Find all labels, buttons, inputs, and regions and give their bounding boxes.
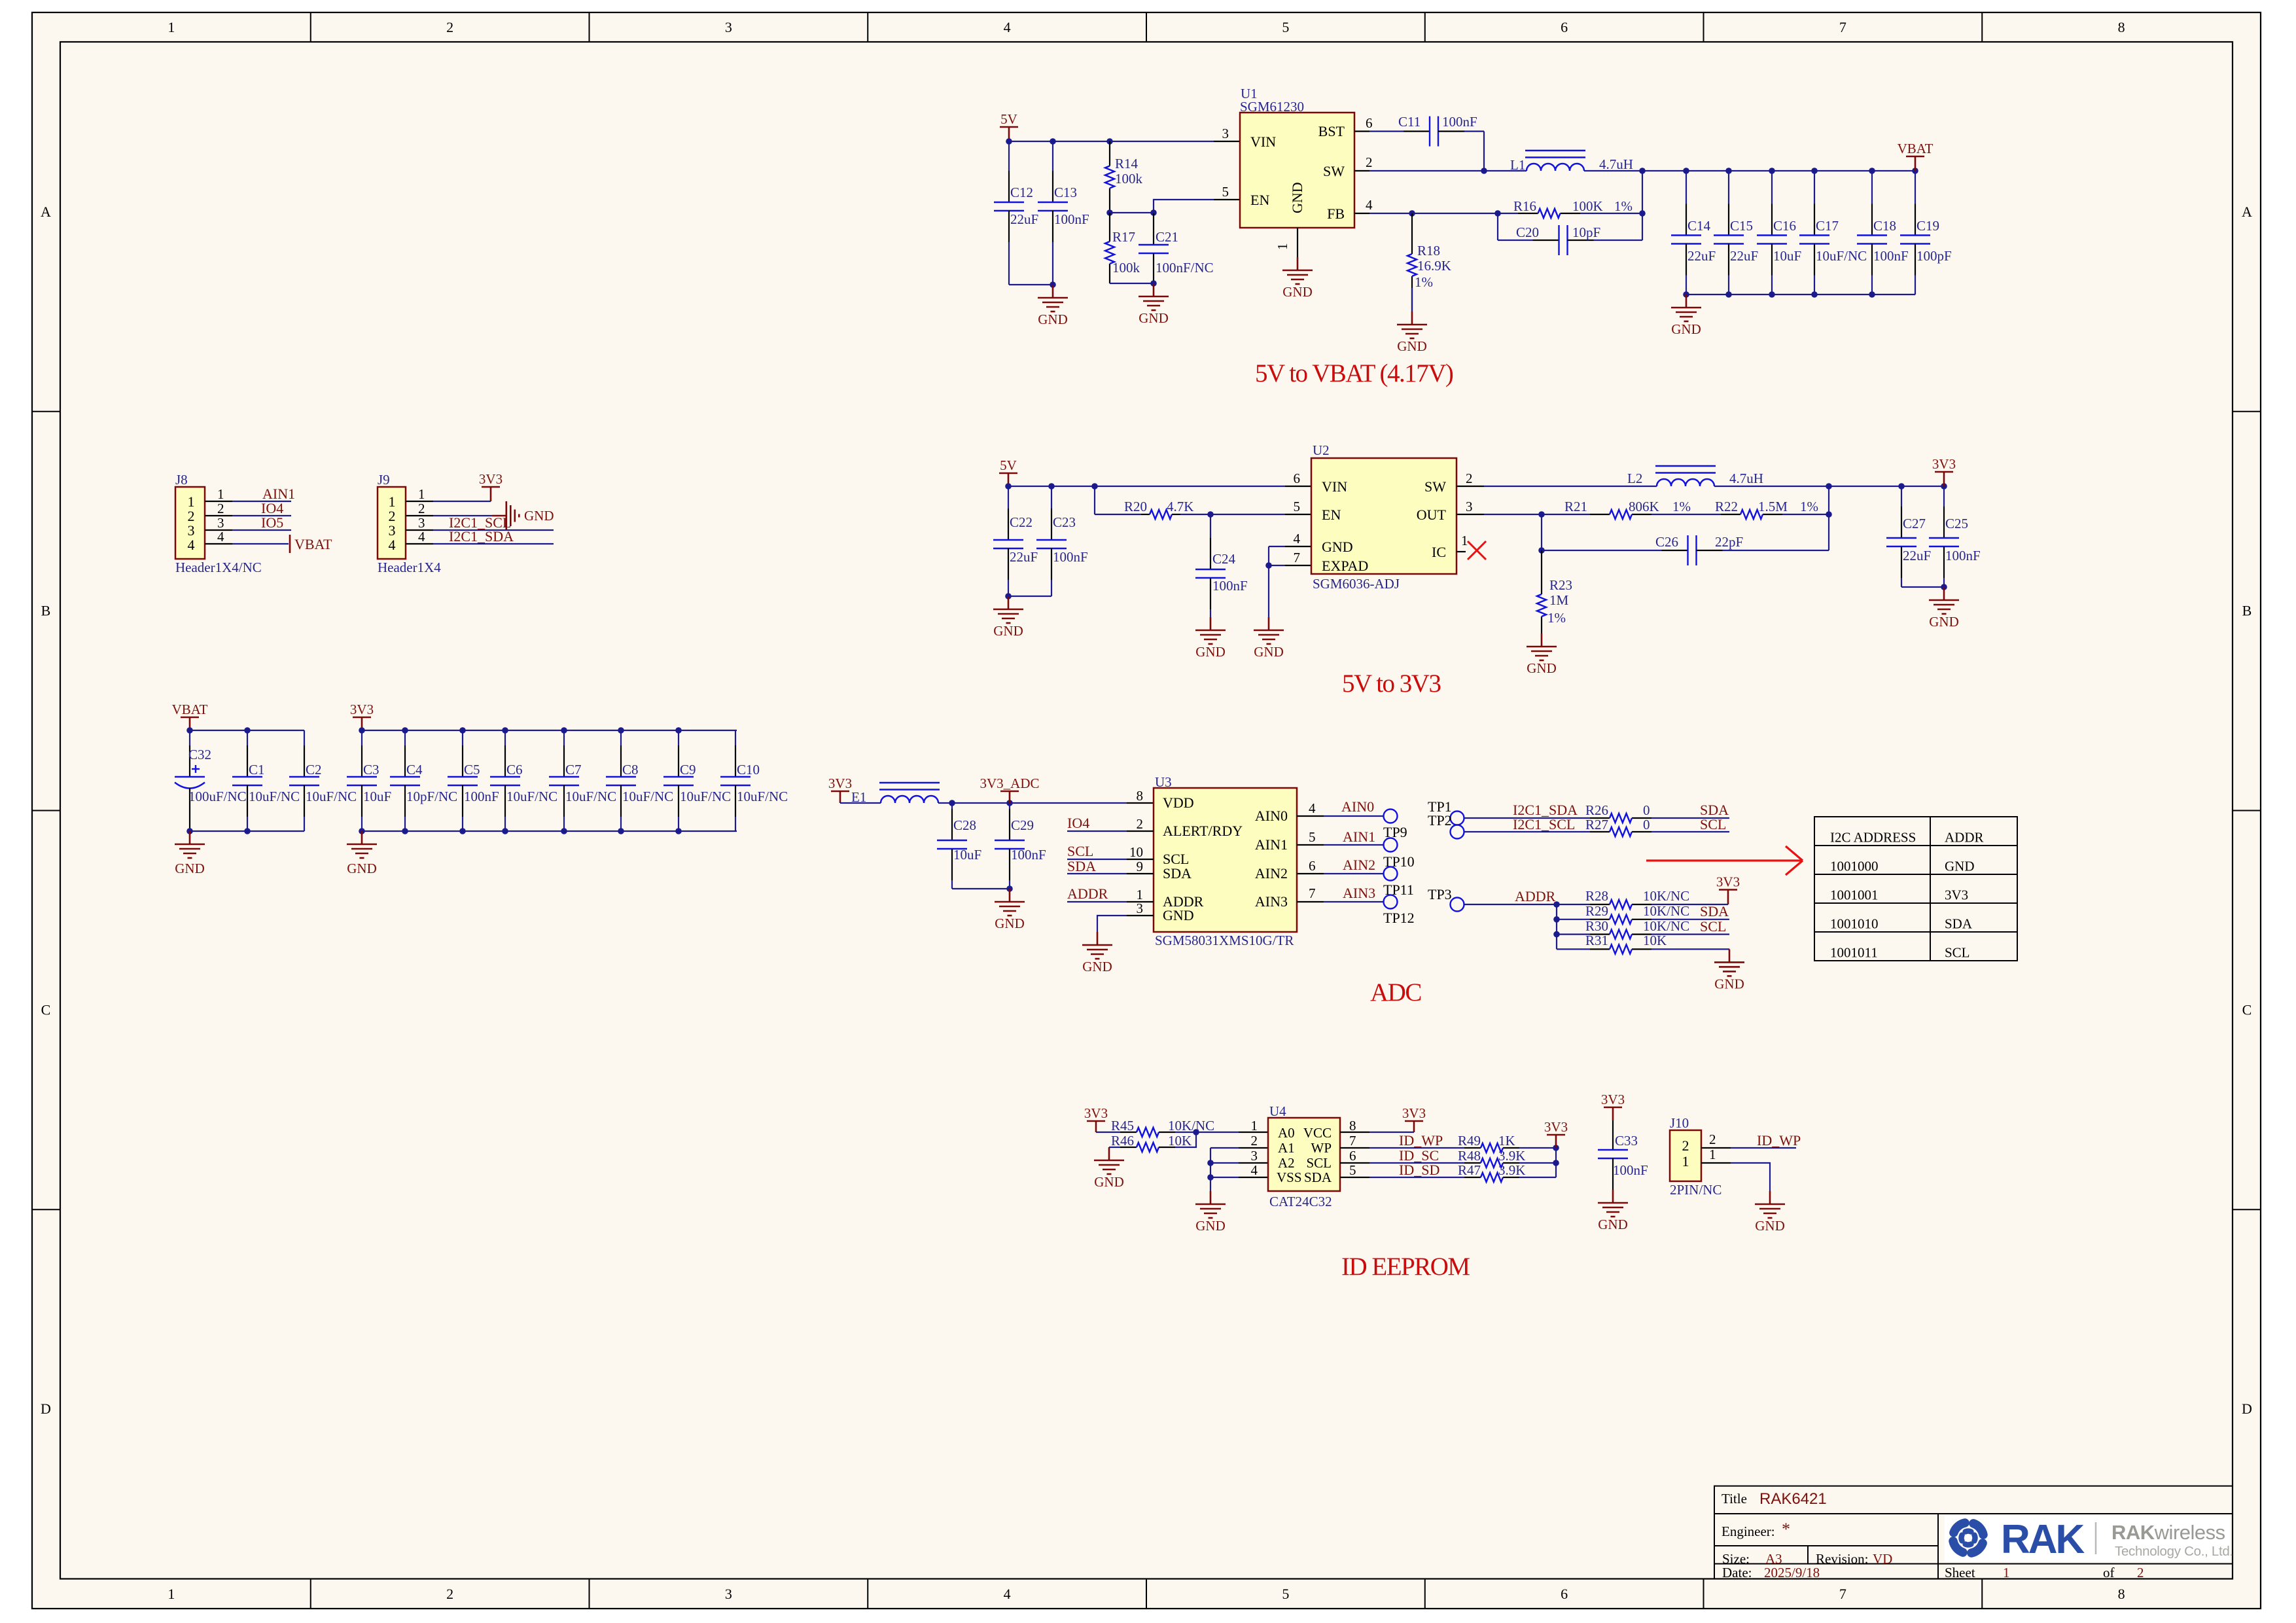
svg-text:A: A [2242, 204, 2252, 220]
svg-text:R20: R20 [1124, 499, 1147, 514]
svg-text:3V3: 3V3 [350, 702, 374, 717]
svg-text:5: 5 [1349, 1162, 1356, 1178]
net IO4 to U3.2 [1067, 830, 1127, 832]
J8 pin 4 wire to VBAT [205, 543, 232, 544]
svg-text:R28: R28 [1585, 888, 1608, 904]
pin U1.4 FB stub [1354, 213, 1369, 214]
ground under U4 VSS [1210, 1191, 1212, 1204]
capacitor C33 100nF [1612, 1120, 1614, 1150]
svg-text:C1: C1 [249, 762, 265, 777]
junction C29/3V3_ADC [1006, 800, 1013, 806]
svg-text:WP: WP [1311, 1140, 1332, 1156]
svg-text:1001011: 1001011 [1830, 945, 1878, 961]
power flag 3V3 at R45 [1095, 1121, 1097, 1132]
svg-text:U4: U4 [1269, 1103, 1286, 1119]
svg-text:IO5: IO5 [261, 514, 283, 531]
svg-text:C12: C12 [1010, 185, 1033, 200]
capacitor C19 [1915, 171, 1916, 204]
svg-text:SCL: SCL [1306, 1155, 1332, 1171]
svg-text:4: 4 [217, 529, 224, 544]
svg-text:3: 3 [1222, 126, 1229, 141]
svg-text:SDA: SDA [1945, 916, 1973, 932]
svg-text:4: 4 [188, 537, 195, 553]
capacitor C26 22pF [1542, 550, 1662, 551]
svg-text:100nF: 100nF [1442, 114, 1477, 130]
svg-text:EXPAD: EXPAD [1322, 558, 1368, 574]
svg-text:C25: C25 [1945, 516, 1968, 531]
svg-text:1: 1 [1682, 1153, 1689, 1169]
resistor R31 10K to GND [1557, 948, 1590, 950]
svg-text:C11: C11 [1398, 114, 1421, 130]
wire 5V rail to VIN [1009, 141, 1214, 142]
resistor R26 0 [1590, 817, 1610, 819]
svg-text:2: 2 [1137, 816, 1144, 832]
svg-text:7: 7 [1349, 1133, 1356, 1149]
svg-text:2: 2 [1466, 471, 1473, 486]
svg-text:GND: GND [1282, 284, 1313, 300]
svg-text:7: 7 [1309, 885, 1316, 901]
junction C13 bottom [1050, 281, 1056, 288]
wire cap bank bottom rail [1686, 294, 1915, 295]
svg-text:AIN3: AIN3 [1255, 893, 1288, 910]
wire C28-C29 bottom [952, 888, 1010, 889]
J8 pin 2 wire / net IO4 [205, 515, 232, 516]
svg-text:1: 1 [1461, 533, 1468, 548]
I2C address table [1814, 817, 2017, 961]
svg-text:4: 4 [1309, 800, 1316, 816]
pin U1.6 BST stub [1354, 131, 1369, 132]
svg-text:5V: 5V [1000, 111, 1017, 127]
junction C11/SW [1481, 168, 1487, 174]
U3 AIN1 wire to TP10 [1297, 844, 1324, 846]
capacitor C16 [1771, 171, 1773, 204]
pin U1.5 EN stub [1214, 199, 1240, 200]
svg-text:A: A [41, 204, 51, 220]
svg-text:GND: GND [993, 623, 1023, 639]
svg-text:1.5M: 1.5M [1758, 499, 1788, 514]
capacitor C24 [1210, 514, 1211, 538]
svg-text:100nF: 100nF [1011, 847, 1046, 863]
ADDR ladder vertical [1556, 904, 1557, 949]
svg-text:3.9K: 3.9K [1498, 1162, 1525, 1178]
svg-text:VSS: VSS [1277, 1169, 1302, 1185]
svg-text:C29: C29 [1011, 817, 1034, 833]
svg-text:10: 10 [1129, 844, 1143, 860]
row tick marks left/right [32, 411, 60, 412]
junction C24 top [1207, 511, 1214, 518]
ground under R23 [1541, 633, 1543, 647]
svg-text:6: 6 [1366, 115, 1373, 131]
svg-text:I2C1_SDA: I2C1_SDA [449, 528, 514, 544]
svg-text:2: 2 [418, 501, 425, 516]
wire 3V3 bank bottom rail [362, 830, 737, 832]
ground under R18 [1411, 312, 1413, 325]
capacitor C9 [678, 730, 679, 745]
svg-text:AIN1: AIN1 [1343, 829, 1375, 845]
junction 5V/C22 [1005, 483, 1012, 490]
svg-text:5: 5 [1282, 19, 1289, 35]
wire EN net [1154, 200, 1214, 213]
svg-text:100k: 100k [1112, 260, 1140, 276]
capacitor C10 [735, 730, 736, 745]
junction R20 tap [1091, 483, 1098, 490]
svg-text:10K: 10K [1643, 933, 1667, 948]
power flag VBAT cap bank [189, 717, 191, 730]
svg-text:ID_SD: ID_SD [1399, 1162, 1439, 1178]
svg-text:C28: C28 [953, 817, 976, 833]
svg-text:100uF/NC: 100uF/NC [188, 789, 247, 804]
junctions cap bank C14-C19 top [1683, 168, 1689, 174]
svg-text:C13: C13 [1054, 185, 1077, 200]
svg-text:TP3: TP3 [1428, 886, 1452, 902]
svg-text:100nF: 100nF [1053, 549, 1088, 565]
node junction 5V/C12 [1006, 138, 1012, 145]
svg-text:22uF: 22uF [1903, 548, 1931, 563]
svg-text:806K: 806K [1629, 499, 1659, 514]
pin U2.5 EN stub [1285, 514, 1311, 515]
svg-text:4: 4 [1004, 1586, 1011, 1602]
svg-text:4: 4 [389, 537, 396, 553]
ground under C32 [189, 831, 191, 844]
svg-text:SW: SW [1323, 163, 1345, 179]
wire R22 to rail tap [1782, 514, 1829, 515]
svg-text:VD: VD [1873, 1551, 1892, 1567]
red arrow to I2C address table [1646, 846, 1803, 875]
node junction C13 [1050, 138, 1056, 145]
svg-text:C3: C3 [363, 762, 380, 777]
ground under C12/C13 [1052, 285, 1054, 298]
svg-text:GND: GND [1139, 310, 1169, 326]
svg-text:3V3: 3V3 [1932, 456, 1956, 472]
wire VBAT rail [190, 730, 304, 731]
svg-text:10uF/NC: 10uF/NC [565, 789, 616, 804]
capacitor C18 [1871, 171, 1873, 204]
wire EXPAD/GND pins [1269, 546, 1285, 547]
junction EXPAD [1265, 562, 1272, 569]
svg-text:100k: 100k [1115, 171, 1143, 187]
wire L2 to 3V3 rail [1714, 486, 1944, 487]
svg-text:2: 2 [446, 1586, 453, 1602]
svg-text:4: 4 [1251, 1162, 1258, 1178]
svg-text:Revision:: Revision: [1816, 1551, 1869, 1567]
regulator U2 SGM6036-ADJ [1311, 458, 1457, 574]
svg-text:*: * [1782, 1520, 1790, 1539]
svg-text:C9: C9 [680, 762, 696, 777]
svg-text:TP2: TP2 [1428, 812, 1452, 829]
capacitor C4 [404, 730, 406, 745]
junction R14/R17 [1106, 209, 1113, 216]
power flag VBAT at J8 [289, 535, 291, 553]
svg-text:R21: R21 [1564, 499, 1587, 514]
svg-text:ID_WP: ID_WP [1757, 1132, 1801, 1149]
svg-text:B: B [41, 603, 51, 619]
svg-text:VBAT: VBAT [294, 536, 332, 552]
svg-text:100nF: 100nF [1054, 211, 1089, 227]
svg-text:C33: C33 [1615, 1133, 1638, 1149]
pin U2.1 IC no-connect [1457, 551, 1466, 552]
no-connect X on U2.1 [1468, 541, 1486, 560]
svg-text:R31: R31 [1585, 933, 1608, 948]
ground under C24 [1210, 617, 1212, 630]
wire R26 to SDA [1651, 817, 1729, 819]
svg-text:3V3: 3V3 [1945, 887, 1968, 903]
pin U4.6 SCL / net ID_SC with R48 3.9K [1340, 1162, 1369, 1164]
resistor R21 806K [1590, 514, 1610, 515]
junction R23 tap [1538, 511, 1545, 518]
svg-text:B: B [2242, 603, 2252, 619]
svg-text:AIN0: AIN0 [1341, 798, 1374, 815]
wire 3V3 to R45 [1096, 1132, 1120, 1133]
resistor R29 10K/NC to SDA [1557, 919, 1590, 920]
svg-text:D: D [2242, 1400, 2252, 1417]
resistor R20 4.7K [1095, 514, 1141, 515]
svg-text:SGM61230: SGM61230 [1240, 99, 1304, 115]
svg-text:1%: 1% [1415, 274, 1433, 290]
ground under U3 [1097, 932, 1099, 945]
svg-text:SCL: SCL [1700, 816, 1726, 832]
svg-text:5V to VBAT (4.17V): 5V to VBAT (4.17V) [1255, 359, 1453, 387]
power flag 3V3 at U4 VCC [1413, 1121, 1415, 1132]
wire C26 feedback vertical right [1828, 514, 1829, 550]
svg-text:6: 6 [1561, 1586, 1568, 1602]
svg-text:3.9K: 3.9K [1498, 1148, 1525, 1164]
svg-text:Header1X4: Header1X4 [378, 560, 441, 575]
svg-text:5: 5 [1294, 499, 1301, 514]
svg-text:1: 1 [1275, 243, 1290, 251]
svg-text:I2C ADDRESS: I2C ADDRESS [1830, 830, 1916, 846]
wire rail to R20 [1094, 486, 1095, 514]
ground under R46 [1108, 1147, 1110, 1160]
net I2C1_SDA wire with R26 [1464, 817, 1590, 819]
svg-text:U2: U2 [1313, 442, 1330, 458]
power flag 3V3_ADC [1009, 791, 1011, 803]
svg-text:GND: GND [1714, 976, 1744, 991]
svg-text:5V to 3V3: 5V to 3V3 [1342, 669, 1440, 698]
svg-text:1001000: 1001000 [1830, 859, 1879, 874]
svg-text:CAT24C32: CAT24C32 [1269, 1194, 1332, 1209]
svg-text:22uF: 22uF [1687, 248, 1716, 264]
svg-text:4.7uH: 4.7uH [1599, 156, 1633, 172]
svg-text:0: 0 [1643, 817, 1650, 832]
resistor R14 [1109, 141, 1110, 166]
capacitor C23 [1051, 486, 1052, 508]
pin U2.3 OUT stub [1457, 514, 1484, 515]
connector J10 2PIN/NC [1670, 1130, 1701, 1181]
resistor R23 1M [1541, 550, 1542, 594]
wire R18 to ground [1411, 288, 1413, 312]
svg-text:1: 1 [418, 486, 425, 502]
junction EN/C21 [1150, 209, 1157, 216]
svg-text:GND: GND [995, 916, 1025, 931]
wire C12-C13 bottom [1009, 284, 1053, 285]
wire C10 column [736, 730, 737, 731]
svg-text:C: C [41, 1001, 51, 1018]
capacitor C7 [563, 730, 565, 745]
wire E1 to U3 VDD [938, 802, 1127, 804]
pin U1.2 SW stub [1354, 170, 1369, 171]
op-amp/regulator U1 SGM61230 [1240, 113, 1354, 228]
svg-text:SDA: SDA [1163, 865, 1192, 882]
svg-text:VIN: VIN [1250, 134, 1276, 150]
capacitor C22 [1008, 486, 1009, 508]
svg-text:VCC: VCC [1303, 1125, 1332, 1141]
resistor R30 10K/NC to SCL [1557, 933, 1590, 935]
svg-text:RAKwireless: RAKwireless [2111, 1521, 2225, 1544]
title block frame [1714, 1486, 2233, 1579]
svg-text:10uF: 10uF [953, 847, 981, 863]
net SDA to U3.9 [1067, 873, 1127, 874]
resistor R16 100K [1412, 213, 1518, 214]
svg-text:1: 1 [168, 19, 175, 35]
svg-text:3: 3 [725, 1586, 732, 1602]
svg-text:AIN0: AIN0 [1255, 808, 1288, 824]
svg-text:8: 8 [2118, 1586, 2125, 1602]
wire R17-C21 bottom [1110, 283, 1154, 284]
junction C28 top [949, 800, 955, 806]
svg-text:C5: C5 [464, 762, 480, 777]
J8 pin 1 wire / net AIN1 [205, 501, 232, 502]
wire R14 bottom to C21 top [1110, 212, 1154, 213]
svg-text:GND: GND [1671, 321, 1701, 337]
capacitor C14 [1686, 171, 1687, 204]
capacitor C20 10pF [1498, 240, 1533, 241]
svg-text:100nF/NC: 100nF/NC [1156, 260, 1214, 276]
ground under C28/C29 [1009, 889, 1011, 902]
U4 A1/A2/VSS ground ladder [1210, 1147, 1239, 1149]
pin U2.2 SW stub [1457, 486, 1484, 487]
net SCL to U3.10 [1067, 859, 1127, 860]
svg-text:Header1X4/NC: Header1X4/NC [175, 560, 262, 575]
svg-text:R45: R45 [1111, 1118, 1134, 1133]
svg-text:GND: GND [1598, 1217, 1628, 1232]
svg-text:R26: R26 [1585, 802, 1608, 818]
svg-text:R16: R16 [1513, 198, 1536, 214]
svg-text:1%: 1% [1800, 499, 1818, 514]
svg-text:4.7K: 4.7K [1167, 499, 1193, 514]
J9 pin 3 wire / net I2C1_SCL [406, 529, 433, 531]
svg-text:AIN2: AIN2 [1255, 865, 1288, 882]
svg-text:100nF: 100nF [1613, 1162, 1648, 1178]
node junction R14 [1106, 138, 1113, 145]
pin U4.5 SDA / net ID_SD with R47 3.9K [1340, 1177, 1369, 1178]
capacitor C2 [304, 730, 305, 745]
logo divider [2095, 1522, 2097, 1554]
capacitor C27 [1901, 486, 1902, 507]
svg-text:1: 1 [2003, 1565, 2010, 1580]
svg-text:10uF/NC: 10uF/NC [622, 789, 673, 804]
svg-text:10uF/NC: 10uF/NC [506, 789, 557, 804]
svg-text:SCL: SCL [1945, 945, 1970, 961]
svg-text:4: 4 [1004, 19, 1011, 35]
svg-text:10K/NC: 10K/NC [1168, 1118, 1214, 1133]
svg-text:AIN1: AIN1 [1255, 836, 1288, 853]
svg-text:10uF/NC: 10uF/NC [306, 789, 357, 804]
capacitor C3 [361, 730, 362, 745]
svg-text:C16: C16 [1773, 218, 1796, 234]
svg-text:1: 1 [217, 486, 224, 502]
svg-text:C19: C19 [1916, 218, 1939, 234]
wire FB to R16 [1369, 213, 1412, 214]
svg-text:2: 2 [217, 501, 224, 516]
svg-text:10K/NC: 10K/NC [1643, 888, 1689, 904]
power flag 5V (section 1) [1008, 127, 1010, 141]
svg-text:C2: C2 [306, 762, 322, 777]
svg-text:VDD: VDD [1163, 794, 1194, 811]
svg-text:10uF/NC: 10uF/NC [680, 789, 731, 804]
svg-text:4: 4 [1366, 197, 1373, 213]
svg-text:D: D [41, 1400, 51, 1417]
svg-text:L1: L1 [1510, 157, 1525, 173]
svg-text:L2: L2 [1627, 471, 1642, 486]
svg-text:3V3: 3V3 [1544, 1119, 1568, 1135]
svg-text:SDA: SDA [1700, 903, 1729, 919]
svg-text:100nF: 100nF [1212, 578, 1248, 594]
svg-text:100nF: 100nF [1945, 548, 1981, 563]
svg-text:Engineer:: Engineer: [1722, 1524, 1775, 1539]
svg-text:10uF/NC: 10uF/NC [249, 789, 300, 804]
svg-text:GND: GND [1755, 1218, 1785, 1234]
svg-text:R17: R17 [1112, 229, 1135, 245]
svg-text:J8: J8 [175, 472, 188, 488]
svg-text:SCL: SCL [1067, 843, 1093, 859]
wire BST/C11 to SW node [1483, 132, 1485, 171]
svg-text:10K/NC: 10K/NC [1643, 918, 1689, 934]
junction C26 left [1538, 547, 1545, 554]
junction R22 right [1826, 511, 1832, 518]
svg-text:SW: SW [1424, 478, 1446, 495]
svg-text:FB: FB [1327, 205, 1345, 222]
svg-text:2: 2 [1251, 1133, 1258, 1149]
svg-text:GND: GND [175, 861, 205, 876]
svg-text:GND: GND [1038, 312, 1068, 327]
svg-text:0: 0 [1643, 802, 1650, 818]
svg-text:6: 6 [1349, 1148, 1356, 1164]
svg-text:3: 3 [1466, 499, 1473, 514]
svg-text:R46: R46 [1111, 1133, 1134, 1149]
junctions cap bank bottom [1683, 291, 1689, 298]
J8 pin 3 wire / net IO5 [205, 529, 232, 531]
capacitor C13 [1052, 141, 1053, 171]
ground (right-facing) at J9 pin 2 [492, 515, 506, 517]
svg-text:6: 6 [1309, 858, 1316, 874]
junction C29 bottom [1006, 885, 1013, 892]
svg-text:C21: C21 [1156, 229, 1178, 245]
svg-text:1M: 1M [1549, 592, 1569, 608]
svg-text:22uF: 22uF [1730, 248, 1758, 264]
capacitor C15 [1728, 171, 1729, 204]
capacitor C8 [620, 730, 622, 745]
junction C22 bottom [1005, 593, 1012, 599]
U3 AIN0 wire to TP9 [1297, 815, 1324, 817]
J10 pin 1 to GND [1701, 1162, 1731, 1164]
svg-text:R18: R18 [1417, 243, 1440, 259]
power flag VBAT top right [1915, 156, 1916, 171]
wire R23 branch vertical [1541, 514, 1542, 550]
svg-text:2: 2 [2137, 1565, 2144, 1580]
svg-text:EN: EN [1322, 507, 1341, 523]
svg-text:AIN2: AIN2 [1343, 857, 1375, 873]
junction C23 top [1048, 483, 1055, 490]
net ADDR to U3.1 [1067, 901, 1127, 902]
ground under J10 [1769, 1191, 1771, 1204]
svg-text:100pF: 100pF [1916, 248, 1952, 264]
svg-text:J10: J10 [1670, 1115, 1689, 1131]
svg-text:10uF: 10uF [363, 789, 391, 804]
wire R27 to SCL [1651, 831, 1729, 832]
svg-text:3V3: 3V3 [828, 776, 852, 791]
svg-text:C7: C7 [565, 762, 582, 777]
wire EXPAD to ground [1268, 565, 1269, 617]
